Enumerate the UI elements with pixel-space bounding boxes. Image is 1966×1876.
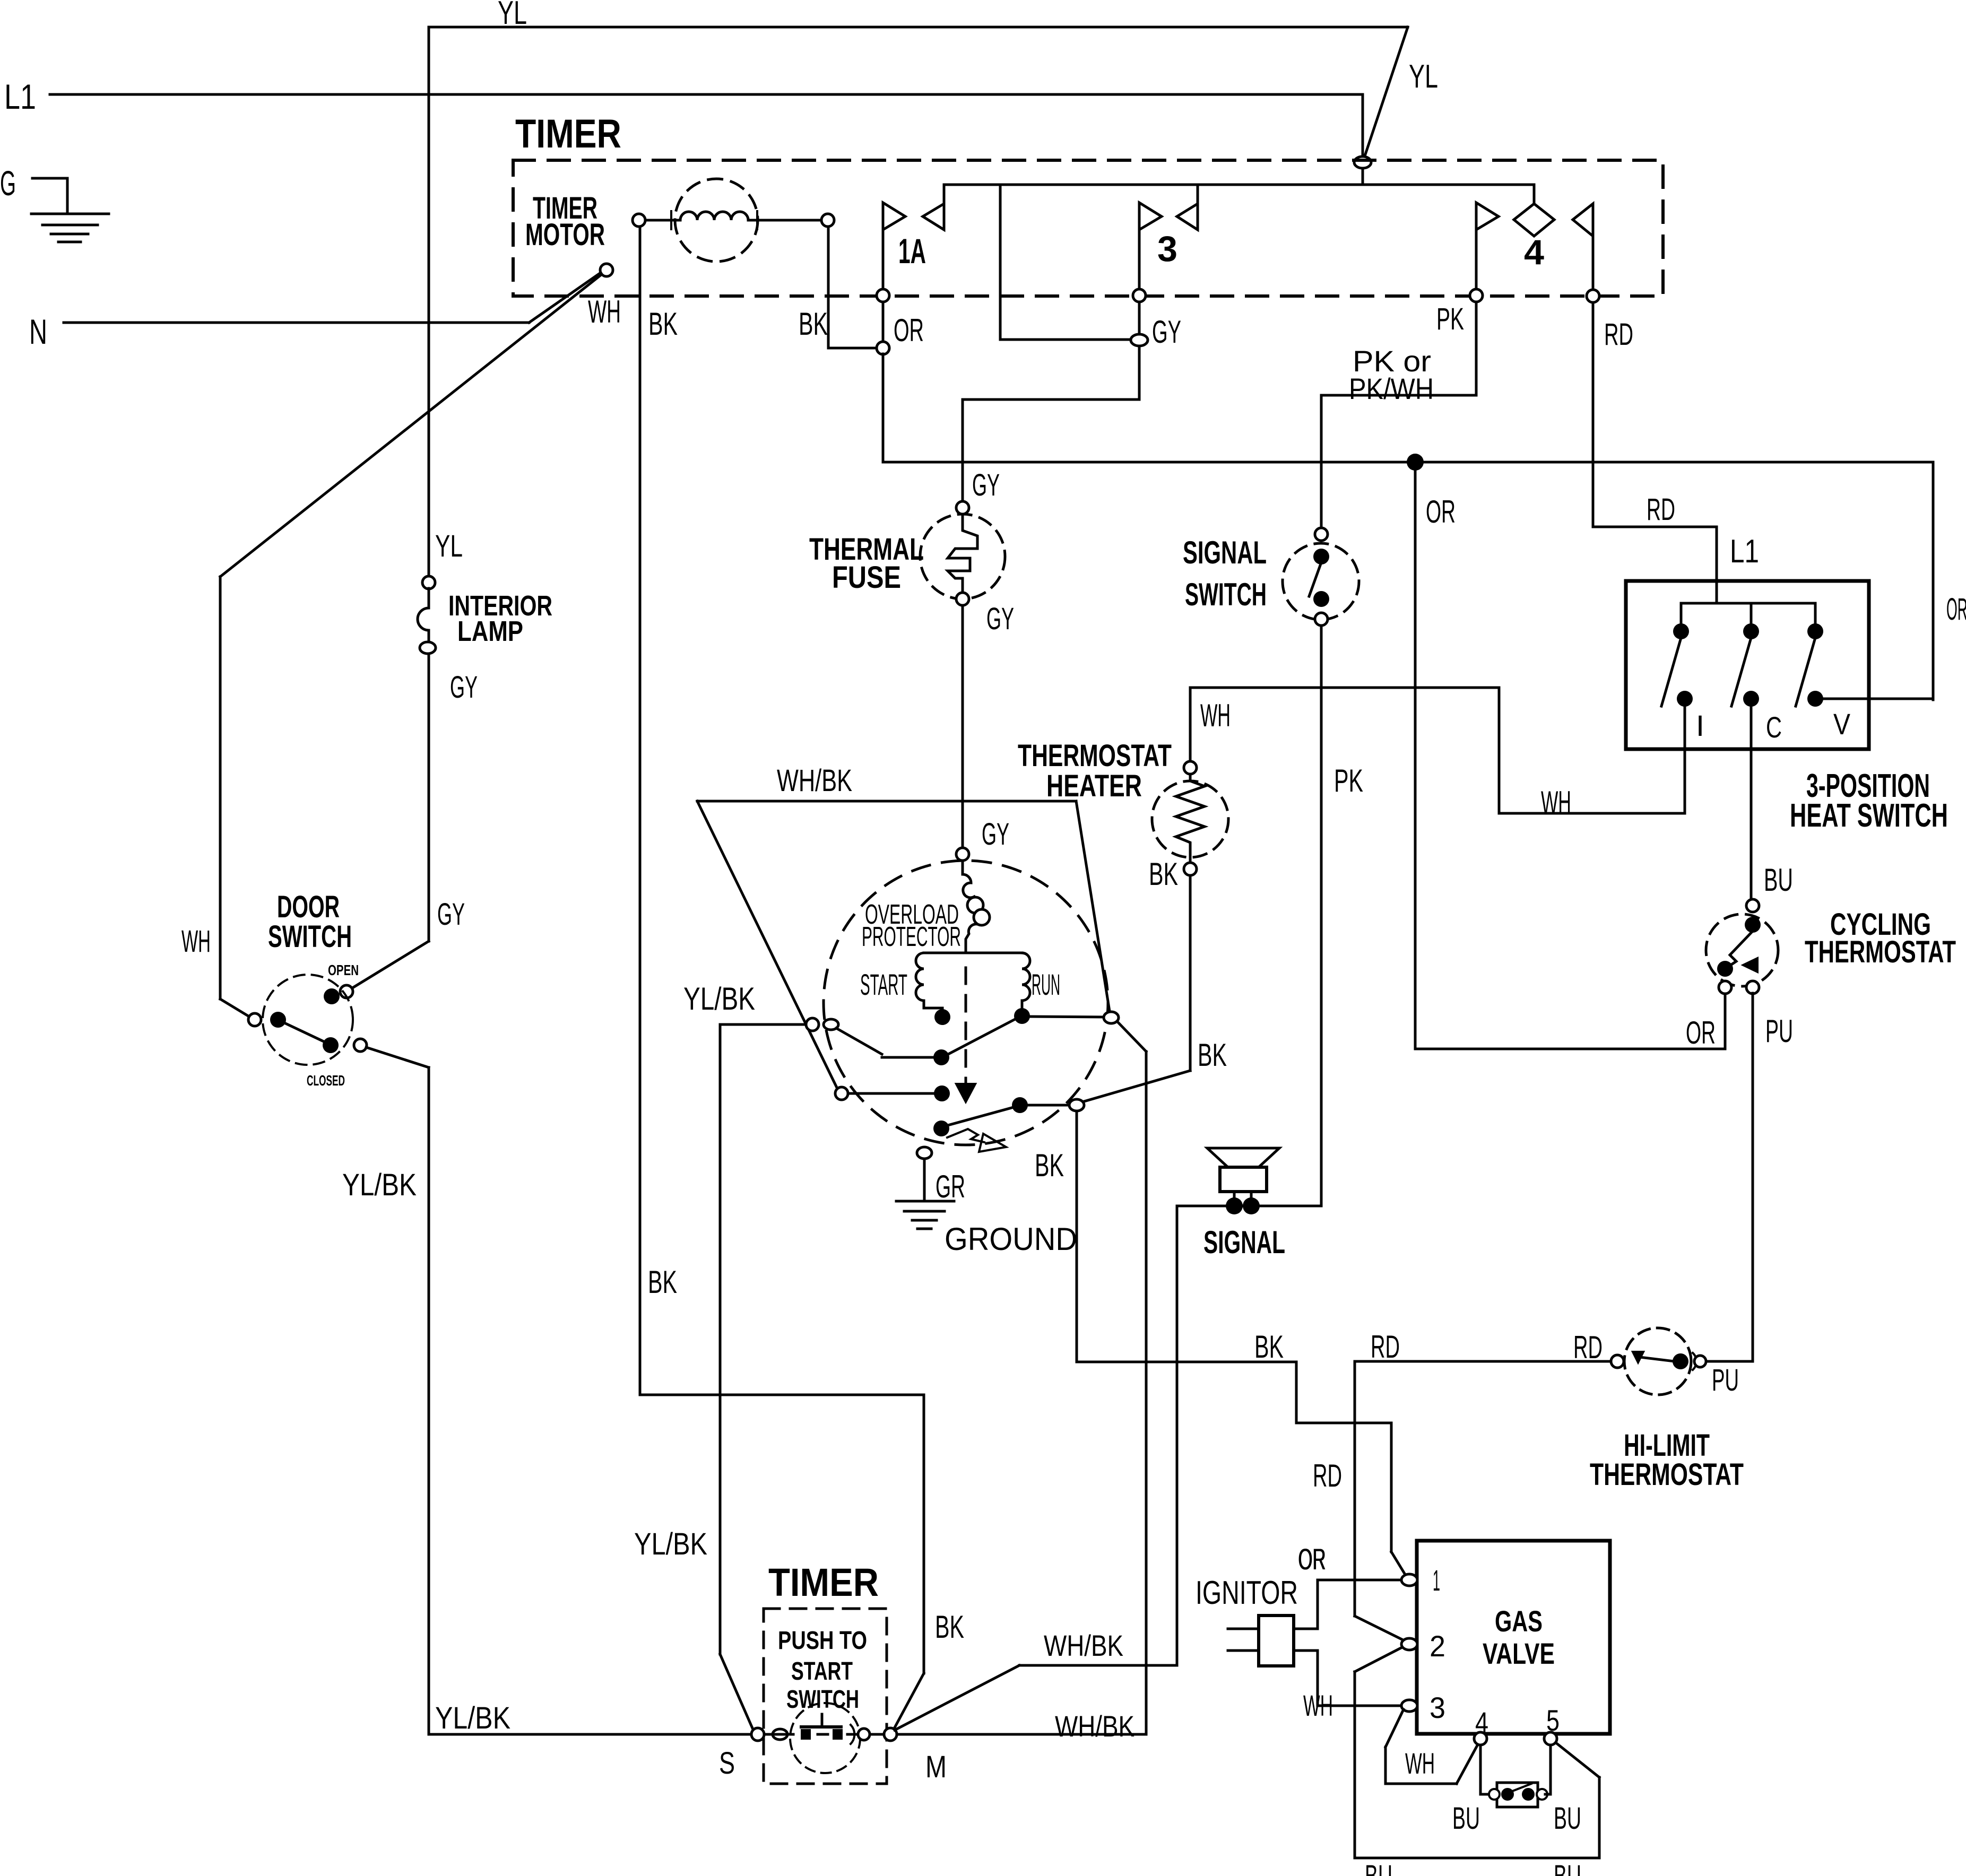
svg-text:4: 4 [1524,232,1544,272]
svg-text:S: S [719,1746,735,1781]
svg-text:PK: PK [1334,763,1363,798]
svg-text:CLOSED: CLOSED [307,1072,345,1089]
svg-text:V: V [1833,707,1851,741]
svg-text:1A: 1A [898,231,926,271]
svg-text:BU: BU [1365,1859,1392,1876]
svg-text:PK: PK [1436,302,1464,336]
svg-text:OR: OR [1946,592,1966,627]
svg-text:THERMOSTAT: THERMOSTAT [1805,935,1956,969]
svg-text:PU: PU [1765,1013,1793,1049]
svg-text:TIMER: TIMER [768,1560,879,1604]
svg-text:BK: BK [648,306,678,342]
svg-text:HEATER: HEATER [1046,769,1142,803]
svg-text:OR: OR [1686,1015,1716,1050]
svg-text:RUN: RUN [1032,968,1060,1001]
svg-text:BU: BU [1554,1859,1581,1876]
svg-text:RD: RD [1573,1330,1603,1365]
svg-text:GR: GR [936,1169,965,1204]
svg-text:I: I [1696,709,1704,742]
svg-text:GAS: GAS [1495,1604,1543,1638]
svg-text:BK: BK [648,1264,677,1300]
svg-text:YL/BK: YL/BK [683,981,755,1017]
svg-text:THERMOSTAT: THERMOSTAT [1018,739,1172,773]
svg-text:WH/BK: WH/BK [777,763,852,798]
svg-text:SIGNAL: SIGNAL [1183,535,1267,570]
svg-text:PK/WH: PK/WH [1349,372,1434,405]
svg-text:WH: WH [1303,1689,1333,1722]
svg-text:2: 2 [1430,1629,1445,1663]
svg-text:BU: BU [1554,1801,1581,1836]
svg-text:START: START [860,968,907,1001]
svg-text:RD: RD [1313,1458,1342,1493]
svg-text:START: START [791,1657,853,1686]
svg-text:WH/BK: WH/BK [1055,1709,1134,1743]
svg-text:BK: BK [799,306,828,342]
svg-text:RD: RD [1647,492,1675,527]
svg-text:3: 3 [1157,229,1177,269]
svg-text:3: 3 [1430,1691,1445,1724]
svg-text:OPEN: OPEN [328,962,359,978]
svg-text:YL: YL [1409,58,1438,95]
svg-text:SIGNAL: SIGNAL [1203,1224,1285,1260]
svg-text:GY: GY [972,468,1000,502]
svg-text:L1: L1 [4,77,36,116]
svg-text:FUSE: FUSE [832,560,901,595]
svg-text:WH/BK: WH/BK [1044,1629,1123,1662]
svg-text:THERMOSTAT: THERMOSTAT [1590,1457,1744,1492]
svg-text:SWITCH: SWITCH [268,919,352,954]
svg-text:YL/BK: YL/BK [342,1168,417,1202]
svg-text:BK: BK [1149,856,1178,892]
svg-text:IGNITOR: IGNITOR [1196,1575,1298,1611]
svg-text:BK: BK [935,1609,964,1645]
svg-text:N: N [29,312,47,351]
svg-text:GY: GY [1152,314,1181,350]
svg-text:GY: GY [450,670,478,705]
svg-text:M: M [925,1750,947,1784]
svg-text:BK: BK [1198,1037,1227,1073]
svg-text:SWITCH: SWITCH [1185,577,1267,612]
svg-text:RD: RD [1604,317,1633,352]
svg-text:LAMP: LAMP [457,615,523,647]
svg-text:PU: PU [1712,1363,1739,1397]
svg-text:WH: WH [181,924,211,959]
svg-text:MOTOR: MOTOR [525,218,605,252]
svg-text:WH: WH [1541,785,1571,820]
svg-text:VALVE: VALVE [1483,1637,1555,1670]
svg-text:GY: GY [986,602,1014,636]
svg-text:BU: BU [1764,862,1793,898]
svg-text:BU: BU [1452,1801,1480,1836]
svg-text:OR: OR [1426,494,1456,529]
svg-text:WH: WH [1405,1747,1435,1780]
svg-text:GROUND: GROUND [945,1221,1077,1257]
svg-text:HEAT SWITCH: HEAT SWITCH [1790,797,1948,834]
svg-text:C: C [1766,710,1782,744]
svg-text:PROTECTOR: PROTECTOR [862,922,961,952]
svg-text:WH: WH [588,294,621,329]
svg-text:1: 1 [1433,1564,1440,1597]
svg-text:GY: GY [437,897,465,932]
svg-text:YL/BK: YL/BK [435,1701,510,1735]
svg-text:YL: YL [435,529,463,563]
svg-text:OR: OR [1298,1542,1326,1576]
svg-text:BK: BK [1254,1329,1284,1365]
svg-text:TIMER: TIMER [515,111,621,157]
svg-text:GY: GY [982,817,1009,852]
svg-text:G: G [0,163,16,203]
svg-text:PUSH TO: PUSH TO [778,1627,867,1655]
svg-text:RD: RD [1371,1329,1400,1365]
svg-text:BK: BK [1035,1148,1064,1183]
svg-text:SWITCH: SWITCH [786,1686,859,1714]
svg-text:L1: L1 [1730,533,1759,570]
svg-text:WH: WH [1200,698,1231,733]
svg-text:YL/BK: YL/BK [634,1527,707,1561]
svg-text:OR: OR [894,312,924,348]
